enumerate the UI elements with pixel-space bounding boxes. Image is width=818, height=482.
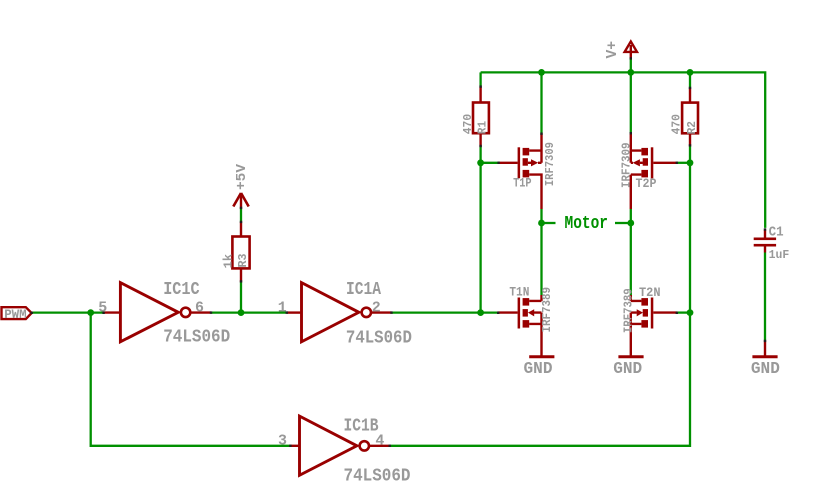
wire V+ stem lower part — [630, 59, 632, 73]
wire PWM input net — [32, 311, 104, 313]
node I junction T2N gate — [687, 309, 694, 316]
transistor Q4 n-mosfet T2N — [631, 295, 677, 356]
ground GND3 — [764, 341, 766, 357]
wire T2N gate stub — [677, 311, 690, 313]
svg-text:6: 6 — [195, 299, 204, 316]
svg-text:R3: R3 — [237, 253, 250, 267]
svg-text:1k: 1k — [223, 254, 236, 269]
node F junction bus at V+ stem — [627, 69, 634, 76]
wire bus to R2 top pin — [689, 72, 691, 87]
IC1C output pin 6 stub — [192, 311, 211, 313]
connector PWM — [2, 307, 32, 319]
svg-text:74LS06D: 74LS06D — [346, 329, 412, 349]
ground GND2 — [618, 355, 643, 358]
IC1B input pin 3 stub — [290, 445, 299, 447]
wire bus to R1 top — [479, 72, 481, 86]
svg-text:IRF7389: IRF7389 — [541, 287, 554, 333]
pin end dot — [102, 312, 104, 314]
pin end dot — [676, 162, 678, 164]
wire R2 bottom down T2 gate column to IC1B output — [390, 146, 690, 446]
wire IC1A output to T1 gate column — [392, 311, 481, 313]
power +5V supply symbol — [233, 193, 248, 207]
pin end dot — [31, 312, 33, 314]
wire bus to T2P source pin — [630, 72, 632, 133]
svg-text:74LS06D: 74LS06D — [344, 466, 411, 482]
pin end dot — [497, 312, 499, 314]
transistor Q3 n-mosfet T1N — [498, 295, 542, 356]
resistor R2 — [682, 103, 698, 134]
svg-text:IC1A: IC1A — [346, 280, 381, 300]
wire T2P drain to motor node — [630, 209, 632, 295]
resistor R3 — [232, 237, 249, 269]
pin end dot — [540, 133, 542, 135]
wire C1 bottom to GND — [764, 253, 766, 341]
inverter gate IC1C — [120, 283, 178, 342]
IC1A output pin 2 stub — [372, 311, 392, 313]
pin end dot — [676, 312, 678, 314]
pin end dot — [479, 145, 481, 147]
wire R3 top to +5V arrow — [240, 209, 242, 223]
pin end dot — [479, 85, 481, 87]
node A junction — [87, 309, 94, 316]
node B junction at R3 bottom — [238, 309, 245, 316]
node M2 motor right junction — [627, 220, 634, 227]
wire motor left stub — [542, 222, 556, 224]
pin end dot — [764, 228, 766, 230]
pin end dot — [630, 132, 632, 134]
pin end dot — [689, 144, 691, 146]
wire IC1C output net to IC1A input — [211, 311, 287, 313]
svg-text:T2N: T2N — [639, 285, 661, 300]
svg-text:T1P: T1P — [513, 175, 532, 190]
IC1B output pin 4 stub — [370, 445, 390, 447]
svg-text:R2: R2 — [686, 121, 699, 134]
pin end dot — [240, 280, 242, 282]
svg-text:1uF: 1uF — [769, 248, 790, 262]
IC1A input pin 1 stub — [287, 311, 302, 313]
inverter gate IC1B — [300, 416, 357, 475]
svg-text:V+: V+ — [604, 41, 621, 59]
IC1C input pin 5 stub — [104, 311, 121, 313]
pin end dot — [240, 221, 242, 223]
node C junction T1P gate — [477, 159, 484, 166]
capacitor C1 — [754, 238, 776, 241]
pin end dot — [286, 311, 288, 313]
wire T1P drain to motor node — [540, 209, 542, 295]
wire R1 bottom down T1 gate column — [479, 147, 481, 313]
svg-text:2: 2 — [372, 299, 381, 316]
node E junction bus at T1P drain — [538, 69, 545, 76]
svg-text:GND: GND — [751, 359, 780, 378]
svg-text:GND: GND — [524, 359, 553, 378]
wire V+ bus horizontal with right drop to C1 — [481, 72, 766, 228]
inverter gate IC1A — [302, 283, 359, 342]
svg-text:1: 1 — [278, 299, 287, 316]
svg-text:470: 470 — [671, 114, 684, 134]
svg-text:IC1B: IC1B — [344, 416, 379, 436]
svg-text:3: 3 — [278, 433, 287, 450]
power V+ supply symbol — [625, 42, 637, 52]
svg-text:Motor: Motor — [565, 214, 609, 234]
pin end dot — [210, 311, 212, 313]
wire T1N gate stub — [481, 311, 498, 313]
resistor R1 — [473, 103, 489, 134]
transistor Q1 p-mosfet T1P — [498, 134, 542, 210]
pin end dot — [764, 340, 766, 342]
node G junction bus at R2 top — [687, 69, 694, 76]
pin end dot — [630, 57, 632, 59]
pin end dot — [689, 87, 691, 89]
pin end dot — [390, 311, 392, 313]
wire R3 bottom to node B — [240, 282, 242, 313]
wire bus to T1P source pin — [540, 72, 542, 133]
svg-text:470: 470 — [462, 114, 475, 134]
pin end dot — [497, 162, 499, 164]
ground GND1 — [529, 355, 554, 358]
pin end dot — [389, 445, 391, 447]
svg-text:PWM: PWM — [4, 307, 27, 322]
svg-text:R1: R1 — [477, 121, 490, 134]
svg-text:+5V: +5V — [235, 163, 250, 190]
svg-text:C1: C1 — [769, 224, 784, 240]
wire T1P gate stub — [481, 162, 499, 164]
pin end dot — [240, 207, 242, 209]
svg-text:74LS06D: 74LS06D — [163, 328, 230, 348]
pin end dot — [289, 445, 291, 447]
node H junction T2P gate — [687, 159, 694, 166]
svg-text:IRF7389: IRF7389 — [623, 288, 636, 333]
svg-text:T1N: T1N — [509, 284, 529, 299]
svg-text:T2P: T2P — [636, 176, 657, 191]
wire motor right stub — [615, 222, 631, 224]
svg-text:IRF7309: IRF7309 — [544, 142, 557, 186]
svg-text:IC1C: IC1C — [163, 280, 200, 300]
wire T2P gate stub — [677, 162, 690, 164]
wire from node A down to IC1B input — [91, 313, 291, 446]
svg-text:IRF7309: IRF7309 — [620, 142, 633, 188]
transistor Q2 p-mosfet T2P — [631, 134, 677, 210]
node D junction T1N gate — [477, 309, 484, 316]
svg-text:GND: GND — [613, 359, 642, 378]
node M1 motor left junction — [538, 220, 545, 227]
